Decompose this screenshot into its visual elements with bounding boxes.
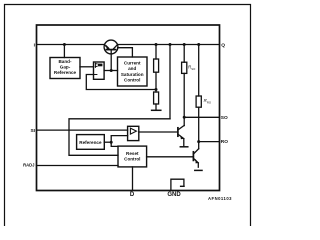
ground Q2 bbox=[195, 169, 202, 171]
wire: divider middle bbox=[155, 72, 157, 92]
wire: comparator output to Q1 base bbox=[139, 131, 178, 133]
block reset control U6 bbox=[118, 146, 147, 167]
svg-text:RO: RO bbox=[207, 101, 212, 105]
svg-text:Gap-: Gap- bbox=[60, 65, 71, 70]
block current and saturation control U3 bbox=[118, 57, 148, 86]
ground GND bar bbox=[181, 185, 184, 187]
wire: error amp output to control box bbox=[104, 70, 117, 72]
wire: RO line to pin bbox=[199, 141, 220, 143]
wire: reference output bbox=[104, 141, 111, 143]
svg-text:Q: Q bbox=[221, 42, 225, 48]
block reference U4 bbox=[77, 135, 105, 150]
node: rail junction divider chain bbox=[155, 43, 158, 46]
node: rail junction RRO chain bbox=[197, 43, 200, 46]
wire: supervisor chain from rail to divider block bbox=[169, 45, 171, 119]
node: rail junction to band-gap bbox=[63, 43, 66, 46]
wire: Q1 emitter to ground bbox=[183, 139, 185, 147]
block band-gap-reference U1 bbox=[50, 58, 80, 79]
wire: pass transistor base down bbox=[110, 50, 112, 71]
svg-text:RO: RO bbox=[221, 139, 228, 145]
svg-text:Control: Control bbox=[124, 157, 140, 162]
resistor RSO bbox=[182, 62, 187, 73]
node: reference node bbox=[110, 141, 113, 144]
svg-text:Control: Control bbox=[124, 78, 140, 83]
wire: SI line to comparator bbox=[37, 129, 128, 131]
wire: divider bottom bbox=[155, 104, 157, 110]
wire: band-gap to error amp bbox=[80, 66, 94, 68]
wire: RRO to RO node and Q2 collector bbox=[198, 107, 200, 149]
svg-text:GND: GND bbox=[167, 192, 181, 198]
node: divider tap bbox=[155, 88, 158, 91]
resistor R2 divider lower bbox=[154, 92, 159, 104]
IC block outline bbox=[37, 25, 220, 191]
svg-text:SO: SO bbox=[191, 67, 196, 71]
wire: feedback loop from error amp to divider tap bbox=[86, 75, 156, 90]
node: base drive junction bbox=[110, 69, 113, 72]
ground divider bbox=[152, 109, 161, 111]
transistor pass PNP bbox=[104, 40, 118, 54]
wire: RRO chain from rail bbox=[198, 45, 200, 97]
svg-text:AFN01103: AFN01103 bbox=[208, 196, 232, 201]
ground GND pin symbol bbox=[171, 179, 184, 190]
wire: reference to comparator input bbox=[111, 136, 127, 143]
svg-text:Reference: Reference bbox=[79, 140, 102, 145]
transistor Q2 bbox=[193, 149, 198, 164]
wire: reset control to Q2 base bbox=[147, 156, 194, 158]
svg-text:Band-: Band- bbox=[58, 59, 71, 64]
node: SO junction bbox=[183, 116, 186, 119]
node: RO junction bbox=[197, 140, 200, 143]
wire: output rail right segment (pass transistor collector to Q pin) bbox=[118, 44, 220, 46]
svg-text:SO: SO bbox=[221, 115, 228, 121]
comparator U5 bbox=[128, 126, 139, 140]
svg-text:I: I bbox=[34, 42, 36, 48]
svg-text:Saturation: Saturation bbox=[121, 72, 144, 77]
svg-text:Reference: Reference bbox=[54, 70, 77, 75]
wire: band-gap drop from rail bbox=[63, 45, 65, 58]
svg-text:SI: SI bbox=[30, 128, 35, 134]
wire: reset control delay to D pin bbox=[132, 167, 134, 191]
transistor Q1 bbox=[178, 125, 184, 139]
node: rail junction RSO chain bbox=[183, 43, 186, 46]
wire: RSO to SO node and Q1 collector bbox=[183, 73, 185, 125]
wire: Q2 emitter stub bbox=[197, 163, 199, 167]
resistor RRO bbox=[196, 96, 201, 107]
wire: input rail left segment (I pin to pass transistor emitter) bbox=[37, 44, 105, 46]
wire: collector sense to control box bbox=[118, 48, 133, 57]
wire: reference to reset control bbox=[111, 142, 118, 146]
svg-text:D: D bbox=[130, 192, 135, 198]
page frame bbox=[5, 5, 251, 227]
wire: divider chain top bbox=[155, 45, 157, 60]
node: rail junction supervisor chain bbox=[169, 43, 172, 46]
svg-text:Reset: Reset bbox=[126, 151, 139, 156]
svg-text:Current: Current bbox=[124, 60, 141, 65]
wire: RSO chain from rail bbox=[183, 45, 185, 63]
error amplifier U2 bbox=[94, 62, 105, 79]
ground Q1 bbox=[180, 146, 188, 148]
svg-text:RADJ: RADJ bbox=[23, 162, 35, 167]
resistor R1 divider upper bbox=[154, 59, 159, 72]
wire: RADJ line to reset control bbox=[37, 165, 119, 167]
svg-text:and: and bbox=[128, 66, 136, 71]
divider block outline bbox=[69, 119, 170, 156]
wire: SO line to pin bbox=[184, 116, 219, 118]
